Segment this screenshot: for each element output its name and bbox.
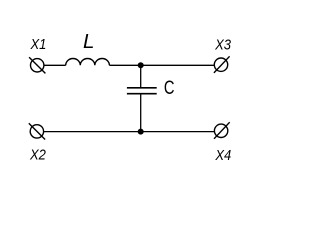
junction node A bbox=[138, 62, 144, 68]
wire X1 to inductor bbox=[44, 64, 66, 66]
terminal X3 bbox=[214, 56, 230, 73]
terminal X1 bbox=[29, 57, 45, 73]
wire node B to X4 bbox=[141, 131, 215, 133]
wire inductor to node A bbox=[109, 64, 140, 66]
inductor L bbox=[66, 58, 110, 65]
svg-text:C: C bbox=[164, 76, 175, 99]
svg-text:L: L bbox=[83, 30, 94, 53]
svg-text:X4: X4 bbox=[214, 146, 231, 163]
junction node B bbox=[138, 129, 144, 135]
wire X2 to node B bbox=[44, 131, 141, 133]
capacitor C bbox=[127, 88, 157, 94]
svg-text:X1: X1 bbox=[30, 35, 47, 52]
wire capacitor to node B bbox=[140, 95, 142, 132]
wire node A to X3 bbox=[141, 64, 215, 66]
svg-text:X2: X2 bbox=[29, 146, 46, 163]
wire node A to capacitor bbox=[140, 65, 142, 87]
terminal X4 bbox=[214, 122, 230, 139]
terminal X2 bbox=[29, 123, 45, 139]
svg-text:X3: X3 bbox=[214, 36, 231, 53]
